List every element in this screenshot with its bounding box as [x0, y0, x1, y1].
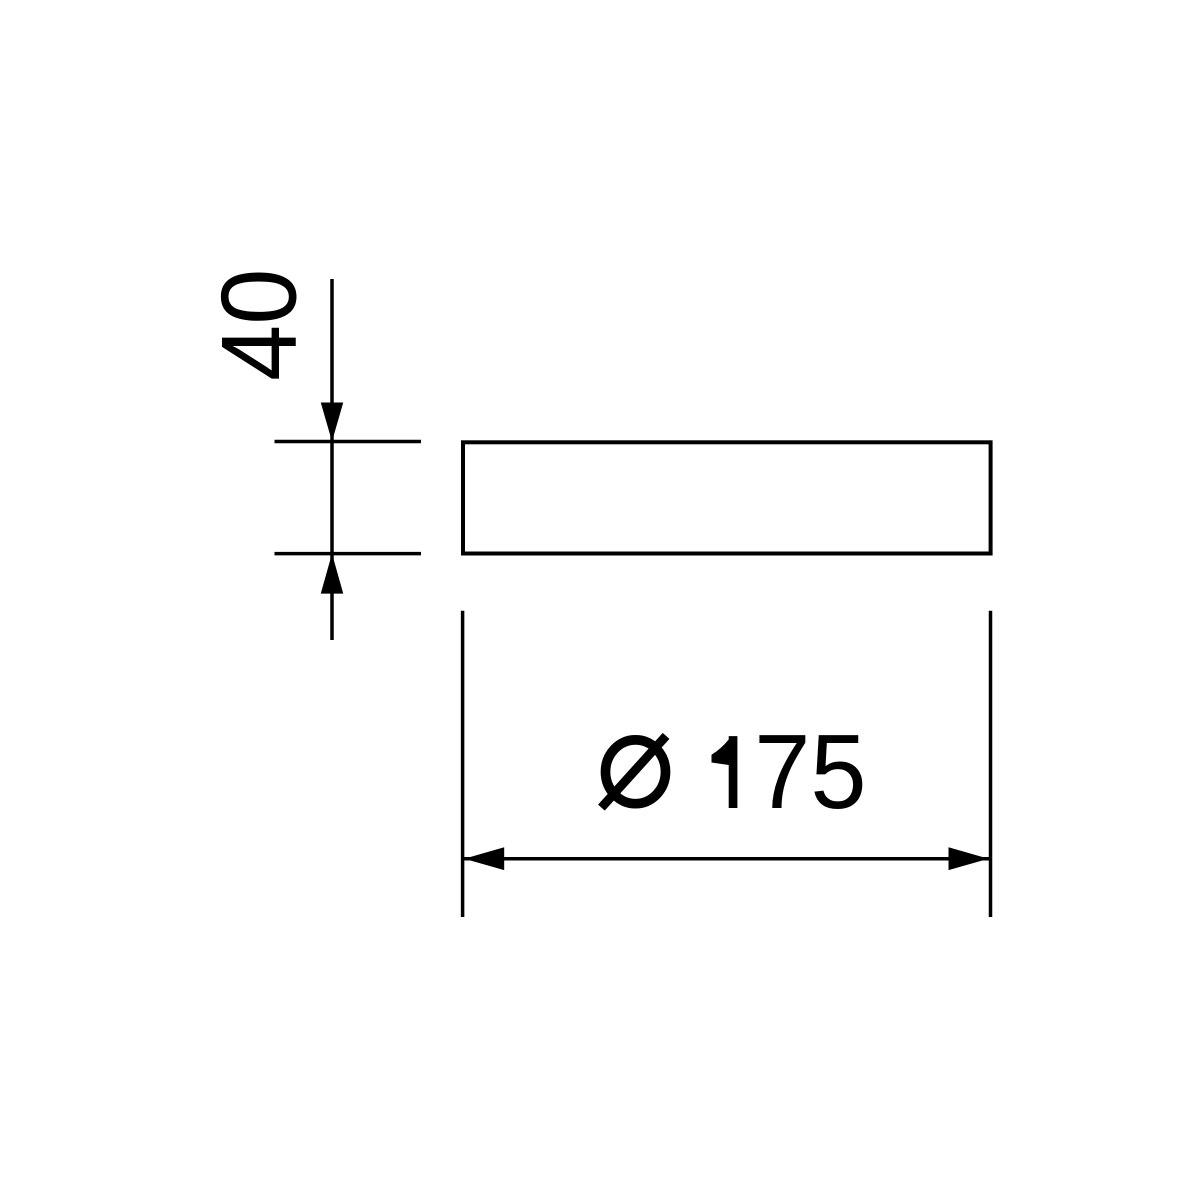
- arrowhead pointing down to top of body: [321, 403, 344, 442]
- arrowhead pointing up to bottom of body: [321, 554, 344, 594]
- right extension line (vertical): [989, 611, 993, 917]
- left arrowhead: [464, 847, 504, 870]
- height dimension line (vertical): [330, 279, 334, 640]
- right arrowhead: [949, 847, 989, 870]
- diameter dimension line (horizontal): [463, 857, 991, 861]
- left extension line (vertical): [461, 611, 465, 917]
- lower extension line: [275, 552, 422, 556]
- diameter symbol slash: [601, 736, 666, 808]
- lamp body outline (side view rectangle): [463, 442, 991, 553]
- upper extension line: [275, 440, 422, 444]
- svg-text:40: 40: [200, 269, 319, 381]
- digit 1 of 175 (drawn glyph): [712, 736, 738, 808]
- diameter symbol circle: [606, 740, 666, 804]
